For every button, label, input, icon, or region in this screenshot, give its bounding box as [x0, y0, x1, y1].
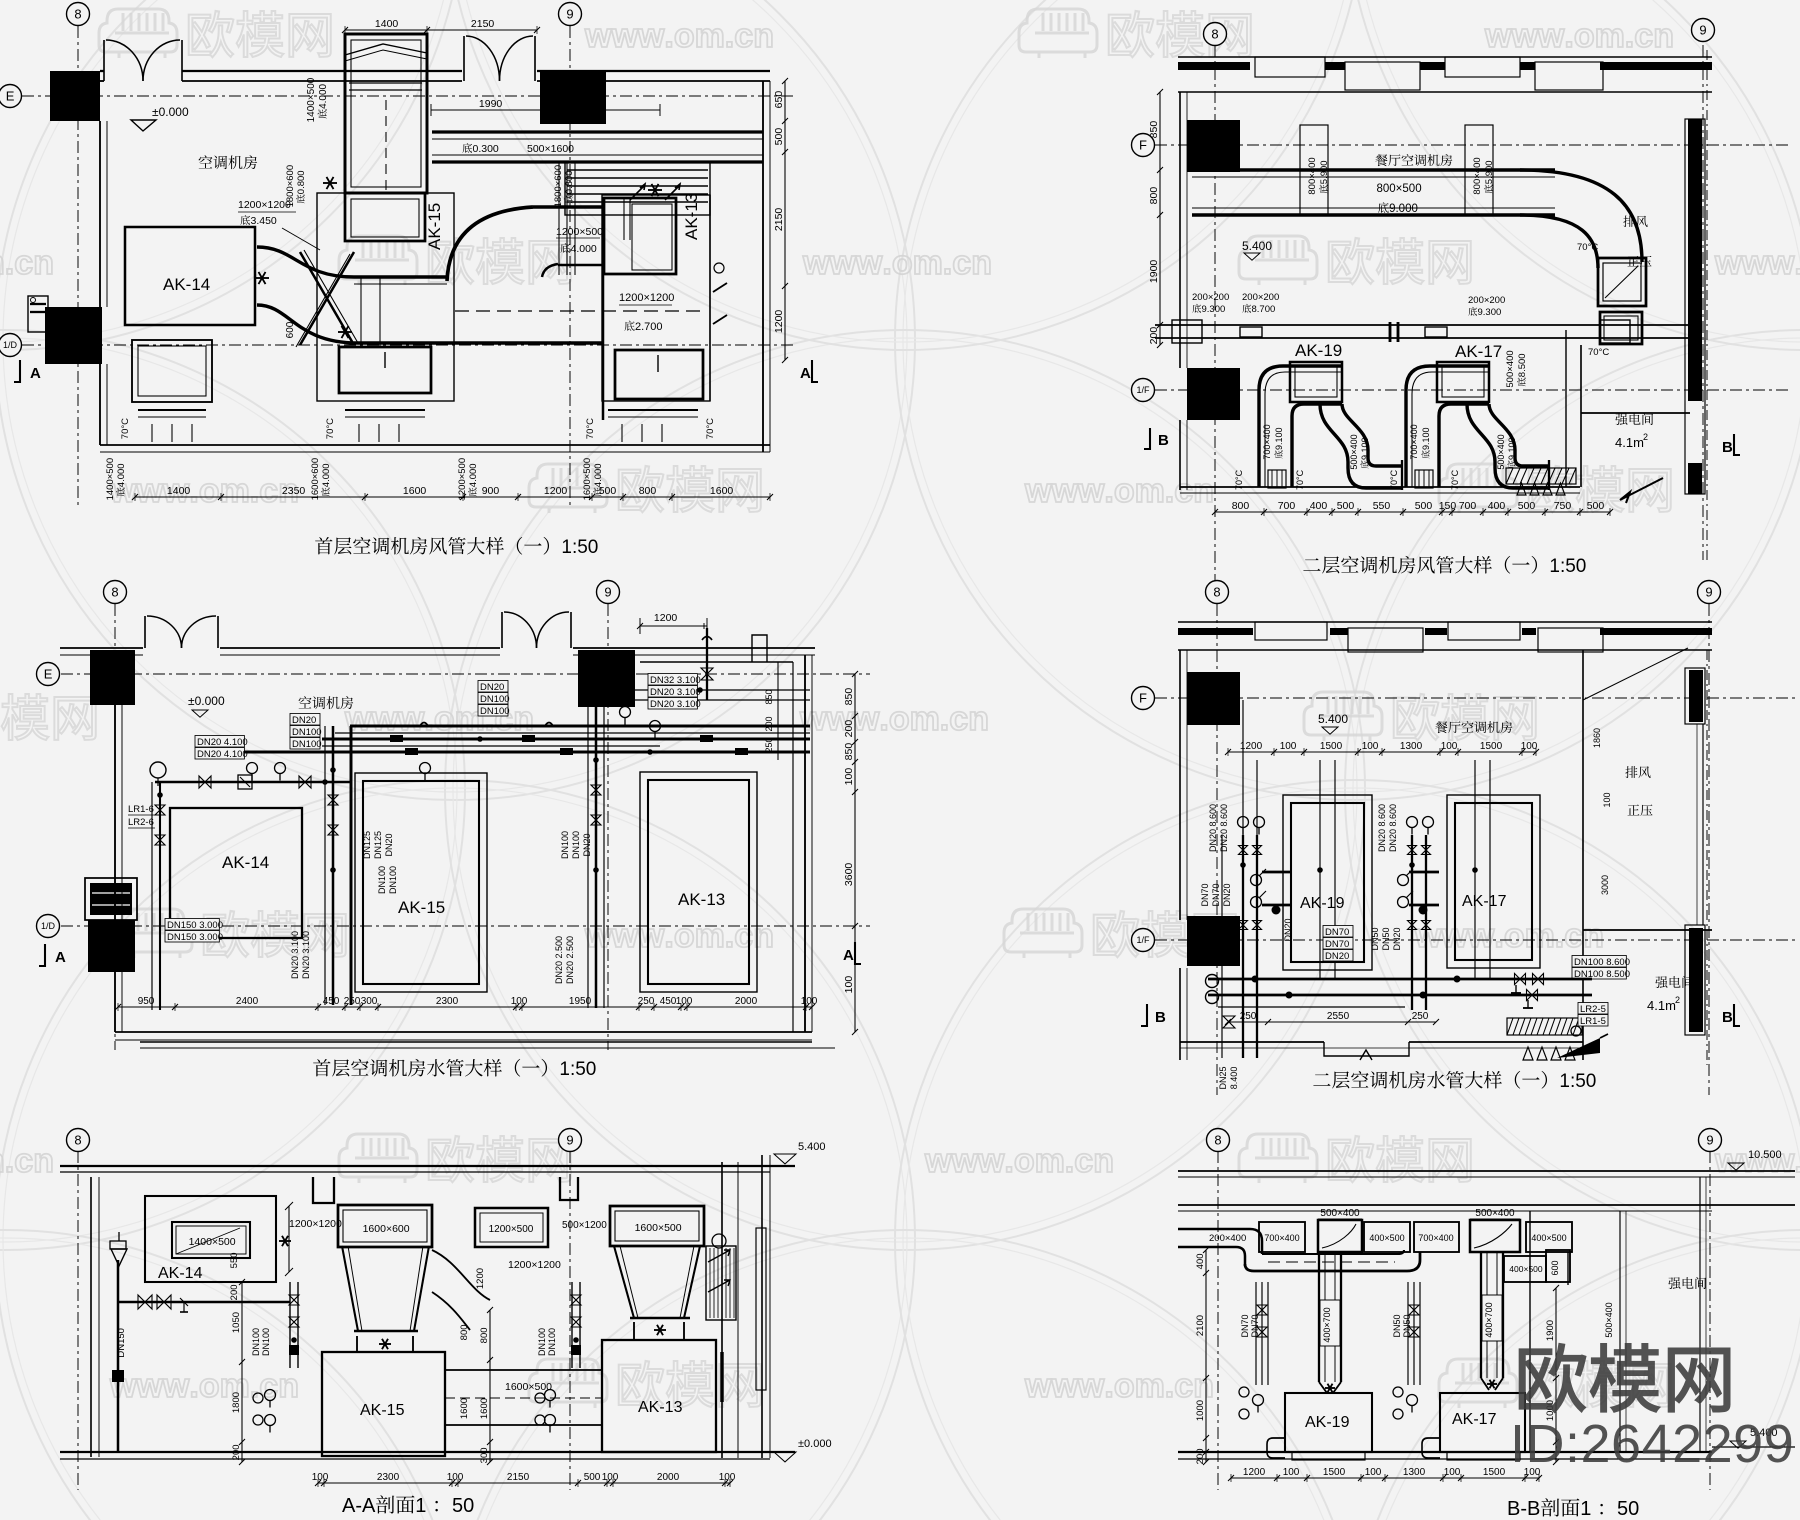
- svg-text:70°C: 70°C: [1588, 347, 1609, 358]
- svg-text:8.400: 8.400: [1229, 1067, 1239, 1090]
- svg-text:w: w: [637, 17, 665, 55]
- svg-text:E: E: [6, 89, 15, 104]
- svg-text:n: n: [968, 700, 989, 738]
- svg-text:1400: 1400: [375, 18, 399, 30]
- svg-text:DN25: DN25: [1218, 1066, 1228, 1089]
- svg-text:n: n: [753, 17, 774, 55]
- svg-text:DN20 8.600: DN20 8.600: [1377, 804, 1387, 852]
- svg-text:E: E: [44, 667, 53, 682]
- svg-text:1800×600: 1800×600: [285, 165, 296, 208]
- svg-text:DN100: DN100: [261, 1328, 271, 1356]
- svg-text:DN150: DN150: [116, 1328, 127, 1358]
- svg-text:4.000: 4.000: [116, 463, 127, 487]
- svg-text:1400: 1400: [167, 485, 191, 497]
- svg-text:8.500: 8.500: [1517, 353, 1528, 377]
- svg-text:.: .: [725, 17, 734, 55]
- svg-text:800×400: 800×400: [1472, 157, 1483, 194]
- svg-text:200: 200: [231, 1444, 242, 1460]
- svg-text:AK-17: AK-17: [1462, 893, 1507, 910]
- svg-text:F: F: [1139, 691, 1147, 706]
- svg-text:1600×600: 1600×600: [310, 458, 321, 501]
- svg-text:800×400: 800×400: [1307, 157, 1318, 194]
- svg-text:400×500: 400×500: [1531, 1233, 1566, 1243]
- svg-text:8: 8: [1211, 27, 1218, 42]
- svg-text:DN70: DN70: [1240, 1314, 1250, 1337]
- svg-text:o: o: [434, 700, 455, 738]
- svg-text:9.100: 9.100: [1507, 437, 1517, 460]
- svg-text:A: A: [55, 949, 66, 966]
- svg-text:c: c: [1634, 17, 1653, 55]
- svg-text:1500: 1500: [1480, 741, 1503, 752]
- svg-text:500×400: 500×400: [1475, 1208, 1515, 1219]
- svg-text:m: m: [913, 244, 943, 282]
- svg-text:9: 9: [1706, 1133, 1713, 1148]
- svg-text:.: .: [250, 472, 259, 510]
- svg-text:400: 400: [1488, 500, 1506, 512]
- svg-text:250: 250: [764, 737, 774, 752]
- svg-text:.: .: [250, 1367, 259, 1405]
- svg-text:.: .: [1794, 244, 1800, 282]
- svg-text:200: 200: [1148, 327, 1160, 345]
- svg-text:200: 200: [229, 1284, 240, 1300]
- svg-text:4.000: 4.000: [468, 463, 479, 487]
- svg-text:DN70: DN70: [1325, 927, 1349, 938]
- svg-text:600: 600: [1550, 1260, 1560, 1275]
- svg-text:c: c: [734, 17, 753, 55]
- svg-text:w: w: [1537, 17, 1565, 55]
- svg-text:400: 400: [1195, 1253, 1206, 1269]
- svg-text:70°C: 70°C: [120, 418, 131, 439]
- svg-text:950: 950: [138, 996, 155, 1007]
- svg-text:1990: 1990: [479, 98, 503, 110]
- svg-text:o: o: [199, 1367, 220, 1405]
- svg-text:w: w: [1484, 17, 1512, 55]
- svg-text:w: w: [1767, 244, 1795, 282]
- svg-text:AK-19: AK-19: [1295, 341, 1342, 360]
- svg-text:.: .: [664, 17, 673, 55]
- svg-text:w: w: [802, 244, 830, 282]
- svg-text:10.500: 10.500: [1748, 1149, 1782, 1161]
- svg-text:9: 9: [566, 7, 573, 22]
- svg-text:DN20 2.500: DN20 2.500: [565, 936, 575, 984]
- svg-text:w: w: [852, 700, 880, 738]
- svg-text:AK-19: AK-19: [1300, 895, 1345, 912]
- svg-text:0.300: 0.300: [473, 143, 499, 155]
- svg-text:w: w: [829, 244, 857, 282]
- svg-text:800: 800: [1148, 187, 1160, 205]
- svg-text:1600: 1600: [403, 485, 427, 497]
- svg-text:400×700: 400×700: [1484, 1302, 1494, 1337]
- svg-text:±0.000: ±0.000: [798, 1438, 832, 1450]
- svg-text:c: c: [1174, 472, 1193, 510]
- svg-text:DN32 3.100: DN32 3.100: [650, 675, 701, 686]
- svg-text:A-A: A-A: [342, 1495, 376, 1517]
- svg-text:1950: 1950: [569, 996, 592, 1007]
- svg-text:800: 800: [479, 1327, 490, 1343]
- svg-text:DN20 3.100: DN20 3.100: [290, 931, 300, 979]
- svg-text:100: 100: [447, 1472, 464, 1483]
- svg-text:m: m: [1135, 1367, 1165, 1405]
- svg-text:.: .: [1165, 472, 1174, 510]
- svg-text:n: n: [1193, 472, 1214, 510]
- svg-text:200: 200: [843, 720, 855, 738]
- svg-text:800: 800: [459, 1324, 470, 1340]
- svg-text:150: 150: [1439, 500, 1457, 512]
- svg-text:AK-17: AK-17: [1455, 342, 1502, 361]
- svg-text:.: .: [189, 1367, 198, 1405]
- svg-text:.: .: [424, 700, 433, 738]
- svg-text:.: .: [1104, 1367, 1113, 1405]
- svg-text:100: 100: [312, 1472, 329, 1483]
- svg-text:1400×500: 1400×500: [306, 77, 317, 122]
- svg-text:3000: 3000: [1600, 875, 1610, 895]
- svg-text:AK-13: AK-13: [638, 1399, 683, 1416]
- svg-text:DN100: DN100: [480, 706, 510, 717]
- svg-text:AK-15: AK-15: [360, 1402, 405, 1419]
- svg-text:.: .: [725, 917, 734, 955]
- svg-text:.: .: [5, 1142, 14, 1180]
- svg-text:.: .: [1104, 472, 1113, 510]
- svg-text:1900: 1900: [1545, 1320, 1556, 1341]
- svg-text:.: .: [1004, 1142, 1013, 1180]
- svg-text:1050: 1050: [231, 1312, 242, 1333]
- svg-text:1600: 1600: [459, 1398, 470, 1419]
- svg-text:200×400: 200×400: [1209, 1233, 1246, 1244]
- svg-text:c: c: [1174, 1367, 1193, 1405]
- svg-text:100: 100: [1602, 792, 1612, 807]
- svg-text:c: c: [14, 244, 33, 282]
- svg-text:AK-15: AK-15: [398, 898, 445, 917]
- svg-text:2.700: 2.700: [635, 321, 663, 333]
- svg-text:m: m: [695, 917, 725, 955]
- svg-text:DN20: DN20: [480, 682, 504, 693]
- svg-text:8: 8: [74, 7, 81, 22]
- svg-text:1000: 1000: [1195, 1400, 1206, 1421]
- svg-text:500×400: 500×400: [1505, 350, 1516, 387]
- svg-text:1200×1200: 1200×1200: [289, 1218, 342, 1230]
- svg-text:w: w: [1741, 1142, 1769, 1180]
- svg-text:250: 250: [638, 996, 655, 1007]
- svg-text:AK-13: AK-13: [682, 193, 701, 240]
- svg-text:c: c: [952, 244, 971, 282]
- svg-text:w: w: [611, 17, 639, 55]
- svg-text:5.400: 5.400: [798, 1141, 826, 1153]
- svg-text:AK-14: AK-14: [222, 853, 269, 872]
- svg-text:1/D: 1/D: [41, 921, 56, 931]
- svg-text:1300: 1300: [1403, 1467, 1426, 1478]
- svg-text:1600×500: 1600×500: [582, 458, 593, 501]
- svg-text:400×700: 400×700: [1322, 1307, 1332, 1342]
- svg-text:DN20: DN20: [384, 833, 394, 856]
- svg-text:n: n: [513, 700, 534, 738]
- svg-text:600: 600: [285, 321, 296, 338]
- svg-text:n: n: [1193, 1367, 1214, 1405]
- svg-text:8: 8: [111, 585, 118, 600]
- svg-text:500×400: 500×400: [1349, 434, 1359, 469]
- svg-text:500: 500: [599, 485, 617, 497]
- svg-text:w: w: [924, 1142, 952, 1180]
- svg-text:200×200: 200×200: [1192, 292, 1229, 303]
- svg-text:w: w: [371, 700, 399, 738]
- svg-text:2: 2: [1643, 432, 1648, 442]
- svg-text:850: 850: [843, 743, 855, 761]
- svg-text:LR2-5: LR2-5: [1580, 1004, 1606, 1015]
- svg-text:n: n: [278, 1367, 299, 1405]
- svg-text:DN100: DN100: [480, 694, 510, 705]
- svg-text:DN100: DN100: [292, 727, 322, 738]
- svg-text:n: n: [1653, 17, 1674, 55]
- svg-text:DN70: DN70: [1250, 1314, 1260, 1337]
- svg-text:DN50: DN50: [1370, 927, 1380, 950]
- svg-text:9: 9: [604, 585, 611, 600]
- svg-text:w: w: [1051, 1367, 1079, 1405]
- svg-text:400×500: 400×500: [1369, 1233, 1404, 1243]
- svg-text:B: B: [1155, 1009, 1166, 1026]
- svg-text:c: c: [14, 1142, 33, 1180]
- svg-text:DN20: DN20: [1283, 918, 1293, 941]
- svg-text:500×400: 500×400: [1604, 1302, 1614, 1337]
- svg-text:400×500: 400×500: [1509, 1264, 1543, 1274]
- svg-text:.: .: [1065, 1142, 1074, 1180]
- svg-text:A: A: [30, 365, 41, 382]
- svg-text:DN20 4.100: DN20 4.100: [197, 737, 248, 748]
- svg-text:o: o: [674, 917, 695, 955]
- svg-text:700×400: 700×400: [1264, 1233, 1299, 1243]
- svg-text:.: .: [1165, 1367, 1174, 1405]
- svg-text:DN100 8.600: DN100 8.600: [1574, 957, 1630, 968]
- svg-text:70°C: 70°C: [1577, 242, 1598, 253]
- svg-text:1600: 1600: [710, 485, 734, 497]
- svg-text:8: 8: [1214, 1133, 1221, 1148]
- svg-text:w: w: [1714, 244, 1742, 282]
- svg-text:2150: 2150: [471, 18, 495, 30]
- svg-text:w: w: [1467, 917, 1495, 955]
- svg-text:1:50: 1:50: [561, 537, 598, 558]
- svg-text:DN20: DN20: [292, 715, 316, 726]
- svg-text:1200×500: 1200×500: [489, 1224, 534, 1235]
- svg-text:DN50: DN50: [1402, 1314, 1412, 1337]
- svg-text:w: w: [1024, 472, 1052, 510]
- svg-text:.: .: [882, 244, 891, 282]
- svg-text:±0.000: ±0.000: [152, 105, 189, 119]
- svg-text:DN20: DN20: [1392, 927, 1402, 950]
- svg-text:9.100: 9.100: [1360, 437, 1370, 460]
- svg-text:DN20 8.600: DN20 8.600: [1208, 804, 1218, 852]
- svg-text:800×500: 800×500: [1377, 183, 1422, 195]
- svg-text:500×400: 500×400: [1320, 1208, 1360, 1219]
- svg-text:500×1200: 500×1200: [562, 1220, 607, 1231]
- svg-text:500: 500: [584, 1472, 601, 1483]
- svg-text:.: .: [5, 244, 14, 282]
- svg-text:850: 850: [843, 688, 855, 706]
- svg-text:9.100: 9.100: [1274, 427, 1284, 450]
- svg-text:DN20 3.100: DN20 3.100: [301, 931, 311, 979]
- svg-text:700×400: 700×400: [1418, 1233, 1453, 1243]
- svg-text:w: w: [1077, 1367, 1105, 1405]
- svg-text:900: 900: [482, 485, 500, 497]
- svg-text:2: 2: [1675, 995, 1680, 1005]
- svg-text:AK-15: AK-15: [425, 203, 444, 250]
- svg-text:100: 100: [1365, 1467, 1382, 1478]
- svg-text:100: 100: [843, 976, 855, 994]
- svg-text:DN20 4.100: DN20 4.100: [197, 749, 248, 760]
- svg-text:100: 100: [1283, 1467, 1300, 1478]
- svg-text:0.800: 0.800: [564, 170, 575, 194]
- svg-text:300: 300: [479, 1447, 490, 1463]
- svg-text:1600: 1600: [479, 1398, 490, 1419]
- svg-text:DN100: DN100: [571, 831, 581, 859]
- svg-text:w: w: [1767, 1142, 1795, 1180]
- svg-text:9: 9: [566, 1133, 573, 1148]
- svg-text:4.1m: 4.1m: [1647, 998, 1676, 1013]
- svg-text:500×1600: 500×1600: [527, 143, 574, 155]
- svg-text:2000: 2000: [735, 996, 758, 1007]
- svg-text:DN100: DN100: [292, 739, 322, 750]
- svg-text:500: 500: [773, 128, 785, 146]
- svg-text:DN125: DN125: [362, 831, 372, 859]
- svg-text:o: o: [1014, 1142, 1035, 1180]
- svg-text:5.400: 5.400: [1318, 712, 1348, 726]
- svg-text:n: n: [33, 244, 54, 282]
- svg-text:.: .: [664, 917, 673, 955]
- svg-text:1200: 1200: [1243, 1467, 1266, 1478]
- svg-text:m: m: [910, 700, 940, 738]
- svg-text:m: m: [1135, 472, 1165, 510]
- svg-text:70°C: 70°C: [705, 418, 716, 439]
- svg-text:9.300: 9.300: [1202, 304, 1226, 315]
- svg-text:DN150 3.000: DN150 3.000: [167, 932, 223, 943]
- svg-text:1300: 1300: [1400, 741, 1423, 752]
- svg-text:1200×1200: 1200×1200: [619, 292, 674, 304]
- svg-text:n: n: [1093, 1142, 1114, 1180]
- svg-text:DN20 3.100: DN20 3.100: [650, 687, 701, 698]
- svg-text:8: 8: [74, 1133, 81, 1148]
- svg-text:LR1-6: LR1-6: [128, 804, 154, 815]
- svg-text:DN100: DN100: [388, 866, 398, 894]
- svg-text:500: 500: [1518, 500, 1536, 512]
- svg-text:DN70: DN70: [1325, 939, 1349, 950]
- svg-text:.: .: [1555, 917, 1564, 955]
- svg-text:DN50: DN50: [1381, 927, 1391, 950]
- svg-text:500: 500: [1337, 500, 1355, 512]
- svg-text:A: A: [800, 365, 811, 382]
- svg-text:AK-17: AK-17: [1452, 1411, 1497, 1428]
- svg-text:B: B: [1158, 432, 1169, 449]
- svg-text:.: .: [943, 244, 952, 282]
- svg-text:n: n: [1583, 917, 1604, 955]
- svg-text:AK-13: AK-13: [678, 890, 725, 909]
- svg-text:2300: 2300: [377, 1472, 400, 1483]
- svg-text:2100: 2100: [1195, 1315, 1206, 1336]
- svg-text:.: .: [1564, 17, 1573, 55]
- svg-text:50: 50: [1617, 1498, 1639, 1520]
- svg-text:B: B: [1722, 1009, 1733, 1026]
- svg-text:2550: 2550: [1327, 1011, 1350, 1022]
- svg-text:200: 200: [1195, 1448, 1206, 1464]
- svg-text:8: 8: [1213, 585, 1220, 600]
- svg-text:DN100: DN100: [560, 831, 570, 859]
- svg-text:550: 550: [1373, 500, 1391, 512]
- svg-text:AK-14: AK-14: [163, 275, 210, 294]
- svg-text:9: 9: [1699, 23, 1706, 38]
- svg-text:650: 650: [773, 91, 785, 109]
- svg-text:3600: 3600: [843, 863, 855, 887]
- svg-text:70°C: 70°C: [585, 418, 596, 439]
- svg-text:B: B: [1722, 439, 1733, 456]
- svg-text:.: .: [189, 472, 198, 510]
- svg-text:w: w: [397, 700, 425, 738]
- svg-text:700×400: 700×400: [1409, 424, 1419, 459]
- svg-text:DN150 3.000: DN150 3.000: [167, 920, 223, 931]
- svg-text:100: 100: [801, 996, 818, 1007]
- svg-text:1200×500: 1200×500: [457, 458, 468, 501]
- svg-text:1200: 1200: [475, 1268, 486, 1289]
- svg-text:5.400: 5.400: [1242, 239, 1272, 253]
- svg-text:AK-14: AK-14: [158, 1265, 203, 1282]
- svg-text:DN20: DN20: [1325, 951, 1349, 962]
- svg-text:800: 800: [1232, 500, 1250, 512]
- svg-text:DN20 3.100: DN20 3.100: [650, 699, 701, 710]
- svg-text:DN20 8.600: DN20 8.600: [1388, 804, 1398, 852]
- svg-text:100: 100: [1521, 741, 1538, 752]
- svg-text:w: w: [855, 244, 883, 282]
- svg-text:2350: 2350: [282, 485, 306, 497]
- svg-text:1200×1200: 1200×1200: [508, 1259, 561, 1271]
- svg-text:100: 100: [719, 1472, 736, 1483]
- svg-text:w: w: [584, 17, 612, 55]
- svg-text:DN20: DN20: [1222, 883, 1232, 906]
- svg-text:500: 500: [1415, 500, 1433, 512]
- svg-text:300: 300: [361, 996, 378, 1007]
- svg-text:±0.000: ±0.000: [188, 694, 225, 708]
- svg-text:DN20: DN20: [582, 833, 592, 856]
- svg-text:1200×500: 1200×500: [556, 226, 603, 238]
- svg-text:700×400: 700×400: [1262, 424, 1272, 459]
- svg-text:n: n: [33, 1142, 54, 1180]
- svg-text:0.800: 0.800: [296, 170, 307, 194]
- svg-text:c: c: [259, 1367, 278, 1405]
- svg-text:DN70: DN70: [1200, 883, 1210, 906]
- svg-text:1600×500: 1600×500: [505, 1381, 552, 1393]
- svg-text:100: 100: [676, 996, 693, 1007]
- svg-text:LR1-5: LR1-5: [1580, 1016, 1606, 1027]
- svg-text:9.300: 9.300: [1478, 307, 1502, 318]
- svg-text:1800: 1800: [231, 1392, 242, 1413]
- svg-text:w: w: [136, 472, 164, 510]
- svg-text:1600×500: 1600×500: [635, 1222, 682, 1234]
- svg-text:2150: 2150: [507, 1472, 530, 1483]
- svg-text:2400: 2400: [236, 996, 259, 1007]
- svg-text:3.450: 3.450: [251, 215, 277, 227]
- svg-text:o: o: [892, 244, 913, 282]
- svg-text:500×400: 500×400: [1496, 434, 1506, 469]
- svg-text:1200: 1200: [544, 485, 568, 497]
- svg-text:250: 250: [344, 996, 361, 1007]
- svg-text:1200: 1200: [654, 612, 678, 624]
- svg-text:1: 1: [415, 1495, 426, 1517]
- svg-text:B-B: B-B: [1507, 1498, 1540, 1520]
- svg-text:1/F: 1/F: [1137, 935, 1151, 945]
- svg-text:AK-19: AK-19: [1305, 1414, 1350, 1431]
- svg-text:DN70: DN70: [1211, 883, 1221, 906]
- svg-text:w: w: [951, 1142, 979, 1180]
- svg-text:70°C: 70°C: [325, 418, 336, 439]
- svg-text:500: 500: [1587, 500, 1605, 512]
- svg-text:200×200: 200×200: [1242, 292, 1279, 303]
- svg-text:100: 100: [1362, 741, 1379, 752]
- svg-text:o: o: [199, 472, 220, 510]
- svg-text:n: n: [971, 244, 992, 282]
